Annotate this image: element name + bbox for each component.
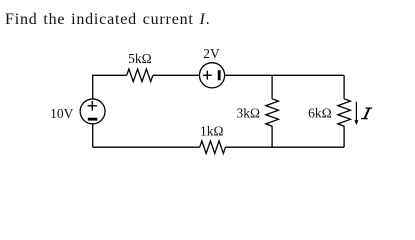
wire right side top	[343, 75, 345, 99]
label I	[361, 108, 372, 119]
wire top middle segment	[153, 74, 200, 76]
voltage source V1 10V circle	[80, 99, 105, 124]
svg-text:10V: 10V	[50, 106, 74, 121]
current arrowhead	[354, 120, 358, 126]
wire left side bottom	[92, 124, 94, 147]
wire right side bottom	[343, 126, 345, 147]
resistor 3k zigzag vertical	[266, 99, 279, 126]
wire middle branch top	[271, 75, 273, 99]
V1 plus sign	[88, 101, 97, 110]
svg-text:3kΩ: 3kΩ	[237, 105, 261, 120]
title text	[5, 11, 210, 29]
current arrow I line	[355, 102, 357, 122]
V1 minus bar	[88, 118, 98, 121]
svg-text:6kΩ: 6kΩ	[308, 105, 332, 120]
resistor 6k zigzag vertical	[338, 99, 351, 126]
V2 minus bar	[218, 70, 221, 80]
wire top-left segment	[93, 75, 127, 99]
resistor 5k zigzag	[127, 69, 153, 82]
resistor 1k zigzag	[200, 141, 226, 154]
svg-text:2V: 2V	[203, 46, 220, 61]
wire middle branch bottom	[271, 126, 273, 147]
wire bottom right segment	[226, 146, 345, 148]
svg-text:5kΩ: 5kΩ	[128, 51, 152, 66]
voltage source V2 2V circle	[199, 63, 224, 88]
wire bottom left segment	[93, 146, 200, 148]
V2 plus sign	[203, 71, 212, 80]
wire top right segment	[225, 74, 344, 76]
svg-text:1kΩ: 1kΩ	[200, 123, 224, 138]
